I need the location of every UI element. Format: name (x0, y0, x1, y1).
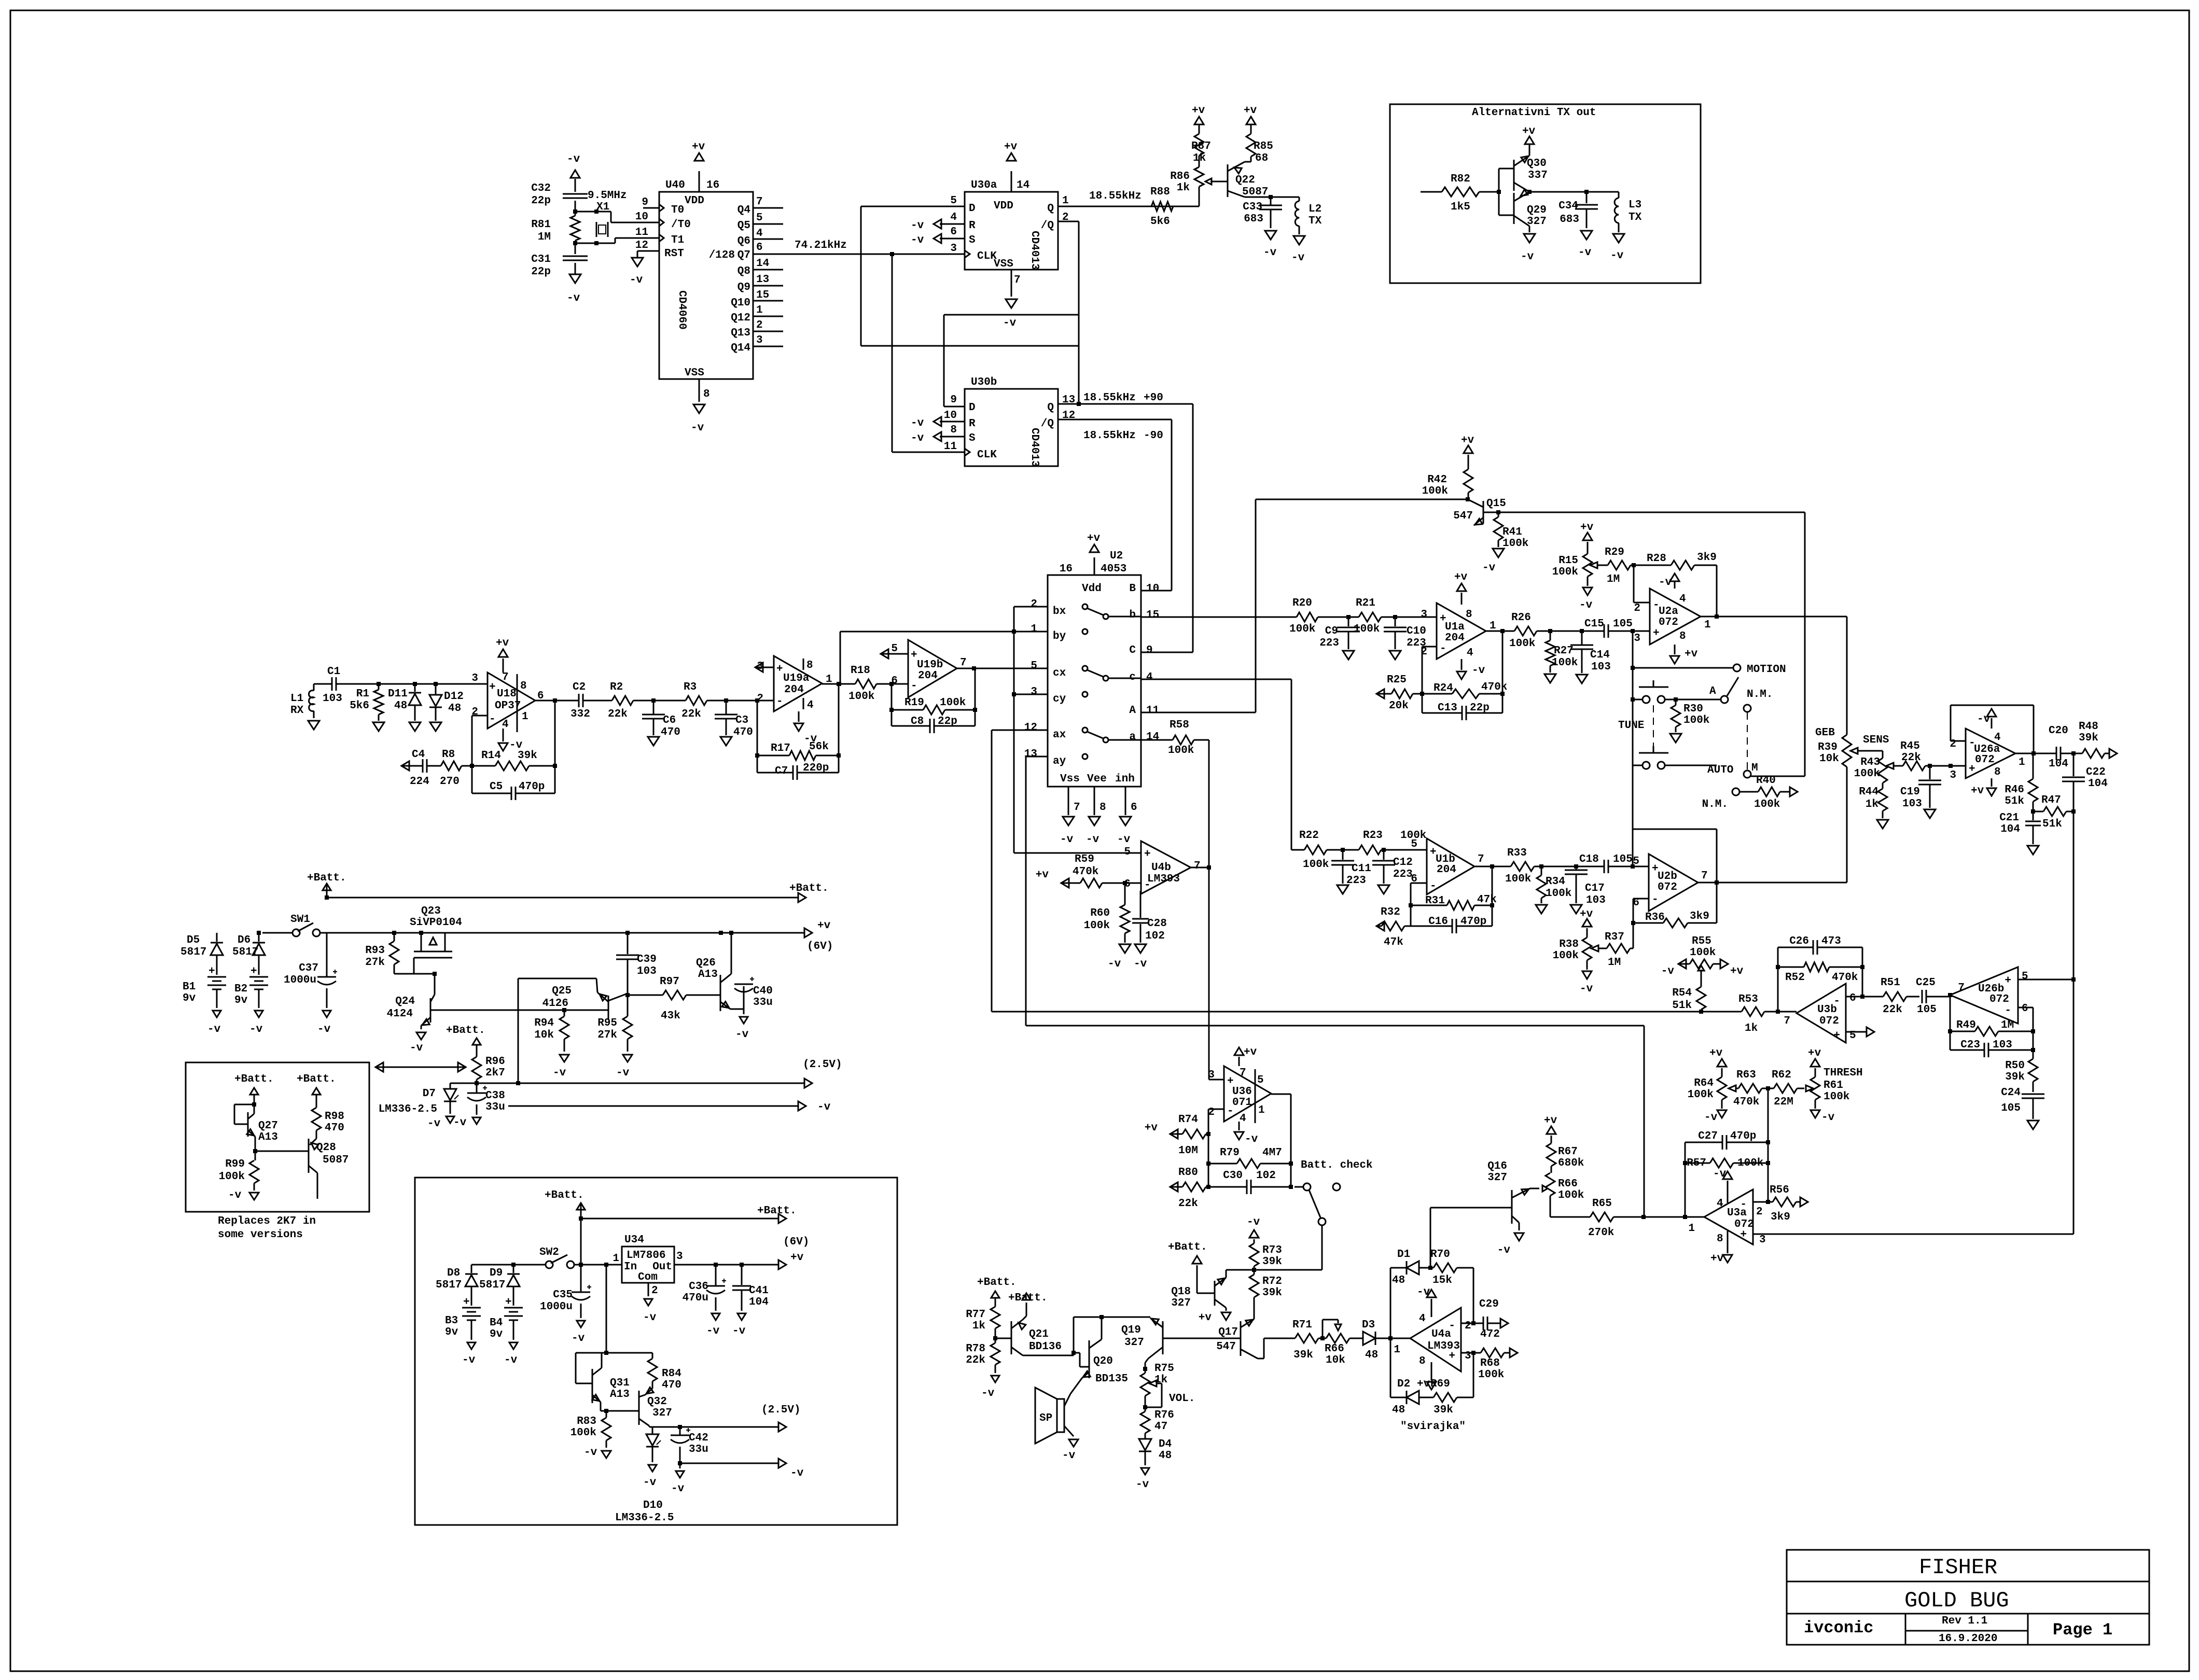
svg-text:+v: +v (817, 920, 831, 932)
svg-text:+: + (208, 965, 215, 977)
resistor R49 (1948, 1019, 2035, 1036)
U2 switch symbols (1082, 604, 1141, 759)
diode D8 (436, 1265, 546, 1306)
trimmer R55 (1661, 935, 1744, 987)
resistor R87 (1191, 105, 1211, 167)
svg-text:SP: SP (1039, 1412, 1052, 1424)
capacitor C12 (1372, 848, 1413, 894)
svg-text:27k: 27k (365, 957, 385, 969)
R98 +Batt (297, 1073, 336, 1108)
svg-text:/128: /128 (709, 249, 735, 261)
svg-text:C31: C31 (531, 254, 551, 265)
svg-text:U2b: U2b (1658, 871, 1677, 883)
svg-text:270k: 270k (1588, 1227, 1614, 1239)
svg-text:22p: 22p (531, 266, 551, 278)
U40 right pin stubs (753, 208, 783, 346)
svg-text:104: 104 (749, 1296, 769, 1308)
U30a R input -v stub (911, 219, 965, 232)
svg-text:inh: inh (1115, 773, 1135, 785)
capacitor C29 (1479, 1298, 1508, 1340)
svg-text:C40: C40 (753, 985, 773, 997)
svg-text:-: - (1440, 643, 1446, 655)
svg-text:22p: 22p (938, 716, 957, 727)
svg-text:6: 6 (1131, 802, 1137, 814)
svg-text:470k: 470k (1481, 681, 1507, 693)
svg-text:7: 7 (1478, 853, 1484, 865)
svg-text:204: 204 (784, 684, 804, 696)
svg-text:+v: +v (692, 141, 705, 153)
capacitor C4 (401, 749, 429, 788)
U30a VSS ground (1003, 270, 1017, 329)
svg-text:11: 11 (1146, 705, 1159, 717)
push-button TUNE (1618, 680, 1721, 732)
svg-text:+v: +v (1244, 105, 1257, 117)
svg-text:R44: R44 (1859, 786, 1878, 798)
svg-text:+: + (463, 1296, 470, 1308)
resistor R63 (1733, 1069, 1770, 1108)
op-amp U1b (1411, 838, 1484, 894)
svg-text:39k: 39k (2079, 732, 2098, 744)
svg-text:5k6: 5k6 (350, 700, 369, 712)
svg-text:Q16: Q16 (1487, 1160, 1507, 1172)
svg-text:+v: +v (1971, 785, 1984, 797)
svg-text:R99: R99 (225, 1158, 245, 1170)
svg-text:R33: R33 (1507, 847, 1527, 859)
svg-text:-: - (911, 680, 917, 692)
wire ax to bus1 (992, 730, 1742, 1014)
svg-text:2: 2 (1031, 598, 1037, 610)
svg-text:9: 9 (1146, 645, 1153, 656)
svg-text:-v: -v (1521, 251, 1534, 263)
svg-text:R27: R27 (1554, 645, 1574, 657)
svg-text:b: b (1129, 609, 1136, 621)
svg-text:RX: RX (290, 705, 304, 717)
resistor R28 feedback (1634, 552, 1717, 617)
svg-text:bx: bx (1053, 606, 1066, 618)
op-amp U36 071 (1208, 1066, 1271, 1125)
svg-text:7: 7 (1701, 870, 1708, 882)
capacitor C39 (616, 931, 657, 997)
svg-text:3k9: 3k9 (1771, 1211, 1790, 1223)
dashed link to M (1747, 712, 1748, 771)
svg-text:105: 105 (2001, 1102, 2021, 1114)
resistor R45 (1900, 740, 1966, 771)
svg-text:1M: 1M (2001, 1019, 2014, 1031)
svg-text:L3: L3 (1629, 199, 1641, 211)
svg-text:-v: -v (671, 1483, 685, 1495)
box supply2 (415, 1178, 897, 1525)
U3a +v below (1710, 1231, 1732, 1265)
inductor L3 (1610, 192, 1642, 262)
resistor R19 feedback (889, 668, 977, 715)
svg-text:7: 7 (960, 657, 967, 669)
resistor R57 (1683, 1142, 1768, 1217)
svg-text:R93: R93 (365, 945, 385, 957)
wire U30a D input (861, 206, 1079, 346)
svg-text:100k: 100k (1552, 657, 1578, 669)
svg-text:R29: R29 (1605, 547, 1624, 558)
svg-text:B1: B1 (183, 981, 196, 993)
svg-text:C3: C3 (735, 715, 748, 726)
svg-text:-v: -v (249, 1024, 263, 1035)
svg-text:D5: D5 (187, 934, 200, 946)
svg-text:100k: 100k (1303, 859, 1329, 871)
capacitor C40 (734, 977, 773, 1041)
resistor R54 (1672, 987, 1706, 1012)
svg-text:LM393: LM393 (1147, 873, 1180, 885)
svg-text:100k: 100k (1422, 485, 1448, 497)
svg-text:C20: C20 (2049, 725, 2068, 737)
svg-text:-v: -v (1659, 577, 1672, 589)
svg-text:9v: 9v (490, 1328, 503, 1340)
U2a output wire (1701, 614, 1844, 619)
svg-text:470u: 470u (683, 1292, 708, 1304)
svg-text:CLK: CLK (977, 449, 997, 461)
svg-text:51k: 51k (2042, 818, 2062, 830)
svg-text:C7: C7 (775, 765, 788, 777)
svg-text:U2: U2 (1110, 550, 1123, 562)
svg-text:C28: C28 (1147, 918, 1167, 930)
capacitor C30 (1206, 1170, 1293, 1194)
svg-text:-v: -v (1497, 1244, 1511, 1256)
U2a inverting wire (1634, 565, 1650, 603)
svg-text:9.5MHz: 9.5MHz (588, 190, 627, 202)
svg-text:Vdd: Vdd (1082, 583, 1102, 595)
svg-text:Q32: Q32 (647, 1396, 667, 1408)
wire b out row (1141, 617, 1297, 618)
svg-text:R36: R36 (1645, 912, 1665, 923)
svg-text:4053: 4053 (1101, 563, 1126, 575)
svg-text:1k: 1k (1866, 799, 1878, 810)
transistor Q26 A13 (696, 931, 744, 1011)
svg-text:51k: 51k (1672, 1000, 1692, 1012)
switch SW1 (262, 914, 327, 936)
capacitor C3 (715, 698, 753, 746)
svg-text:104: 104 (2000, 823, 2020, 835)
svg-text:-v: -v (1579, 599, 1593, 611)
svg-text:R47: R47 (2041, 794, 2061, 806)
svg-text:U19b: U19b (917, 659, 943, 671)
svg-text:100k: 100k (848, 691, 874, 703)
svg-text:47k: 47k (1384, 936, 1403, 948)
U18 -v (498, 729, 523, 751)
resistor R31 (1409, 894, 1497, 910)
resistor R58 (1168, 719, 1209, 867)
U3b pin5 stub (1846, 1027, 1874, 1037)
svg-text:+Batt.: +Batt. (297, 1073, 336, 1085)
diode D12 (429, 684, 464, 731)
capacitor C11 (1331, 848, 1371, 894)
svg-text:327: 327 (1527, 216, 1547, 228)
mosfet Q23 SiVP0104 (410, 905, 462, 974)
op-amp U3a (1688, 1189, 1765, 1246)
svg-text:+v: +v (1454, 571, 1468, 583)
svg-text:1k: 1k (972, 1320, 985, 1332)
U30a S input -v stub (911, 234, 965, 246)
svg-text:100k: 100k (1354, 623, 1380, 635)
svg-text:5: 5 (1124, 846, 1131, 858)
svg-text:1: 1 (756, 304, 763, 316)
svg-text:100k: 100k (1552, 566, 1578, 578)
svg-text:100k: 100k (1690, 947, 1716, 959)
resistor R98 (310, 1108, 344, 1145)
svg-text:+v: +v (1730, 965, 1744, 977)
resistor R42 (1422, 435, 1474, 499)
svg-text:R65: R65 (1592, 1198, 1612, 1210)
svg-text:15k: 15k (1432, 1275, 1452, 1286)
double arrow link (375, 1062, 466, 1072)
svg-text:-v: -v (630, 274, 643, 286)
resistor R21 (1348, 597, 1437, 635)
svg-text:10k: 10k (534, 1029, 554, 1041)
svg-text:-v: -v (427, 1118, 441, 1130)
svg-text:11: 11 (944, 441, 957, 453)
svg-text:+Batt.: +Batt. (234, 1073, 274, 1085)
svg-text:470: 470 (662, 1379, 681, 1391)
net 18.55kHz -90 (1058, 419, 1172, 591)
svg-text:-v: -v (732, 1325, 746, 1337)
svg-text:+90: +90 (1144, 392, 1163, 404)
svg-text:Q7: Q7 (737, 249, 750, 261)
capacitor C17 (1565, 864, 1606, 914)
U3b inverting row (1846, 995, 1864, 999)
svg-text:+v: +v (1244, 1046, 1257, 1058)
transistor Q18 327 (1168, 1241, 1254, 1324)
svg-text:C11: C11 (1352, 863, 1371, 875)
svg-text:R20: R20 (1292, 597, 1312, 609)
svg-text:+: + (489, 681, 496, 693)
capacitor C18 (1579, 853, 1649, 873)
svg-text:8: 8 (1099, 802, 1106, 814)
svg-text:5817: 5817 (180, 946, 206, 958)
diode D4 (1136, 1438, 1172, 1491)
svg-text:-v: -v (1263, 247, 1277, 259)
IC U30a CD4013 (950, 179, 1068, 286)
svg-text:4: 4 (1146, 671, 1153, 683)
svg-text:(2.5V): (2.5V) (803, 1059, 842, 1071)
svg-text:10: 10 (1146, 583, 1159, 595)
capacitor C24 (2001, 1087, 2044, 1129)
svg-text:102: 102 (1256, 1170, 1276, 1182)
svg-text:48: 48 (394, 700, 407, 712)
svg-text:33u: 33u (485, 1101, 505, 1113)
svg-text:2: 2 (1756, 1206, 1763, 1218)
capacitor C5 (472, 766, 555, 800)
svg-text:3: 3 (1465, 1350, 1471, 1362)
svg-text:-v: -v (228, 1189, 242, 1201)
svg-text:R40: R40 (1756, 775, 1776, 787)
svg-text:4: 4 (950, 212, 957, 223)
svg-text:14: 14 (1146, 731, 1159, 743)
svg-text:C27: C27 (1698, 1130, 1718, 1142)
net 74.21kHz (753, 240, 965, 256)
svg-text:470: 470 (733, 726, 753, 738)
svg-text:7: 7 (1074, 802, 1080, 814)
svg-text:R74: R74 (1178, 1114, 1198, 1126)
svg-text:-v: -v (1247, 1216, 1260, 1228)
svg-text:R45: R45 (1900, 740, 1920, 752)
svg-text:8: 8 (1994, 766, 2001, 778)
svg-text:R38: R38 (1559, 939, 1579, 950)
svg-text:R57: R57 (1687, 1157, 1706, 1169)
svg-text:327: 327 (652, 1407, 672, 1419)
trimmer R39 GEB (1815, 617, 1883, 883)
U2 +v (1087, 533, 1101, 575)
svg-text:8: 8 (520, 680, 527, 692)
svg-text:4: 4 (1240, 1113, 1246, 1125)
resistor R23 (1343, 830, 1427, 855)
svg-text:15: 15 (1146, 609, 1159, 621)
svg-text:20k: 20k (1389, 700, 1409, 712)
svg-text:C35: C35 (553, 1289, 573, 1301)
svg-text:1000u: 1000u (540, 1301, 573, 1313)
U36 +v (1234, 1046, 1257, 1066)
svg-text:5: 5 (2022, 971, 2028, 983)
svg-text:103: 103 (323, 693, 342, 705)
op-amp U19a (757, 656, 832, 711)
svg-text:Q13: Q13 (731, 327, 750, 339)
U1a inverting wire (1422, 647, 1437, 694)
svg-text:-v: -v (1134, 958, 1147, 970)
svg-text:-v: -v (567, 292, 580, 304)
svg-text:1k5: 1k5 (1451, 201, 1470, 213)
IC U40 CD4060 (635, 179, 769, 379)
svg-text:22k: 22k (966, 1354, 985, 1366)
svg-text:+: + (1144, 848, 1151, 860)
U18 +v (496, 637, 509, 673)
svg-text:10: 10 (635, 211, 648, 223)
capacitor C13 (1422, 694, 1502, 720)
svg-text:AUTO: AUTO (1707, 764, 1733, 776)
svg-text:-v: -v (911, 234, 924, 246)
wire bx by cy to U4b+ (1012, 607, 1141, 853)
svg-text:+: + (1653, 627, 1660, 639)
svg-text:39k: 39k (2005, 1071, 2025, 1083)
+Batt top2 (545, 1189, 797, 1265)
U26b non-inv wire (2018, 979, 2073, 981)
svg-text:C33: C33 (1243, 201, 1262, 213)
svg-text:5087: 5087 (1242, 186, 1268, 198)
svg-text:C14: C14 (1590, 649, 1610, 661)
trimmer R43 SENS (1854, 734, 1903, 783)
resistor R97 (628, 976, 720, 1022)
svg-text:LM7806: LM7806 (627, 1250, 666, 1262)
op-amp U18 OP37 (471, 671, 544, 732)
svg-text:R3: R3 (684, 681, 697, 693)
U18 output wire (535, 698, 579, 766)
resistor R37 (1598, 931, 1633, 969)
svg-text:100k: 100k (1168, 745, 1194, 757)
svg-text:1: 1 (613, 1253, 619, 1265)
svg-text:5817: 5817 (479, 1279, 505, 1291)
svg-text:18.55kHz: 18.55kHz (1089, 190, 1142, 202)
capacitor C14 (1570, 629, 1611, 683)
svg-text:100k: 100k (1683, 715, 1709, 726)
capacitor C15 (1584, 618, 1650, 638)
wire R62 node down (1766, 1088, 1770, 1202)
U2b output wire (1698, 880, 1847, 885)
svg-text:R: R (969, 418, 976, 430)
U4a input node (1388, 1268, 1410, 1397)
svg-text:10k: 10k (1326, 1354, 1345, 1366)
svg-text:270: 270 (440, 776, 460, 788)
svg-text:2: 2 (1465, 1320, 1471, 1332)
svg-text:+Batt.: +Batt. (789, 883, 829, 894)
svg-text:R: R (969, 220, 976, 232)
transistor Q29 327 (1514, 190, 1547, 232)
svg-text:1000u: 1000u (284, 974, 316, 986)
svg-text:U30b: U30b (971, 376, 997, 388)
wire U30a /Q to U30b D (944, 221, 1079, 407)
svg-text:CLK: CLK (977, 250, 997, 262)
svg-text:Q24: Q24 (395, 996, 415, 1007)
svg-text:R41: R41 (1502, 526, 1522, 538)
diode D1 (1390, 1249, 1432, 1286)
resistor R84 (645, 1353, 681, 1395)
svg-text:+v: +v (1145, 1122, 1158, 1134)
resistor R2 (583, 681, 653, 720)
svg-text:547: 547 (1216, 1341, 1236, 1353)
svg-text:472: 472 (1480, 1328, 1500, 1340)
svg-text:LM336-2.5: LM336-2.5 (615, 1512, 674, 1524)
capacitor C36 (683, 1265, 726, 1337)
resistor R62 (1768, 1069, 1804, 1108)
svg-text:CD4060: CD4060 (676, 290, 688, 330)
svg-text:Q20: Q20 (1093, 1355, 1113, 1367)
svg-text:33u: 33u (753, 997, 773, 1009)
svg-text:C24: C24 (2001, 1087, 2021, 1099)
battery B2 (234, 965, 268, 1035)
resistor R88 (1150, 186, 1173, 228)
svg-text:072: 072 (1989, 993, 2009, 1005)
contact A (1674, 677, 1738, 703)
svg-text:"svirajka": "svirajka" (1400, 1421, 1466, 1433)
svg-text:-v: -v (1661, 965, 1675, 977)
svg-text:R73: R73 (1262, 1244, 1282, 1256)
wire X1 to T1 (615, 238, 638, 243)
svg-text:(2.5V): (2.5V) (761, 1404, 801, 1416)
svg-text:U30a: U30a (971, 179, 997, 191)
svg-text:-v: -v (1821, 1112, 1835, 1124)
svg-text:MOTION: MOTION (1747, 664, 1786, 676)
capacitor C7 (757, 755, 839, 780)
svg-text:-v: -v (462, 1354, 476, 1366)
svg-text:6: 6 (950, 226, 957, 238)
svg-text:D8: D8 (447, 1267, 460, 1279)
U26b input node (1948, 993, 1952, 1050)
svg-text:6: 6 (1849, 992, 1856, 1004)
resistor R93 (365, 933, 414, 974)
U4a -v above (1417, 1286, 1436, 1317)
svg-text:-v: -v (1472, 665, 1485, 677)
svg-text:C18: C18 (1579, 853, 1599, 865)
svg-text:47: 47 (1154, 1421, 1167, 1433)
wire D1 node to Q16 (1430, 1208, 1512, 1268)
svg-text:103: 103 (1993, 1039, 2012, 1051)
svg-text:R56: R56 (1770, 1184, 1789, 1196)
svg-text:+: + (505, 1296, 512, 1308)
svg-text:C2: C2 (573, 681, 586, 693)
svg-text:VSS: VSS (685, 367, 704, 379)
svg-text:Q26: Q26 (696, 957, 716, 969)
svg-text:R86: R86 (1170, 171, 1190, 183)
svg-text:4: 4 (1467, 647, 1473, 659)
svg-text:U3a: U3a (1727, 1207, 1747, 1219)
U2 Vss Vee inh grounds (1060, 787, 1137, 846)
resistor R24 (1420, 681, 1507, 698)
wire TX out node (1527, 190, 1619, 194)
svg-text:8: 8 (1466, 609, 1472, 621)
